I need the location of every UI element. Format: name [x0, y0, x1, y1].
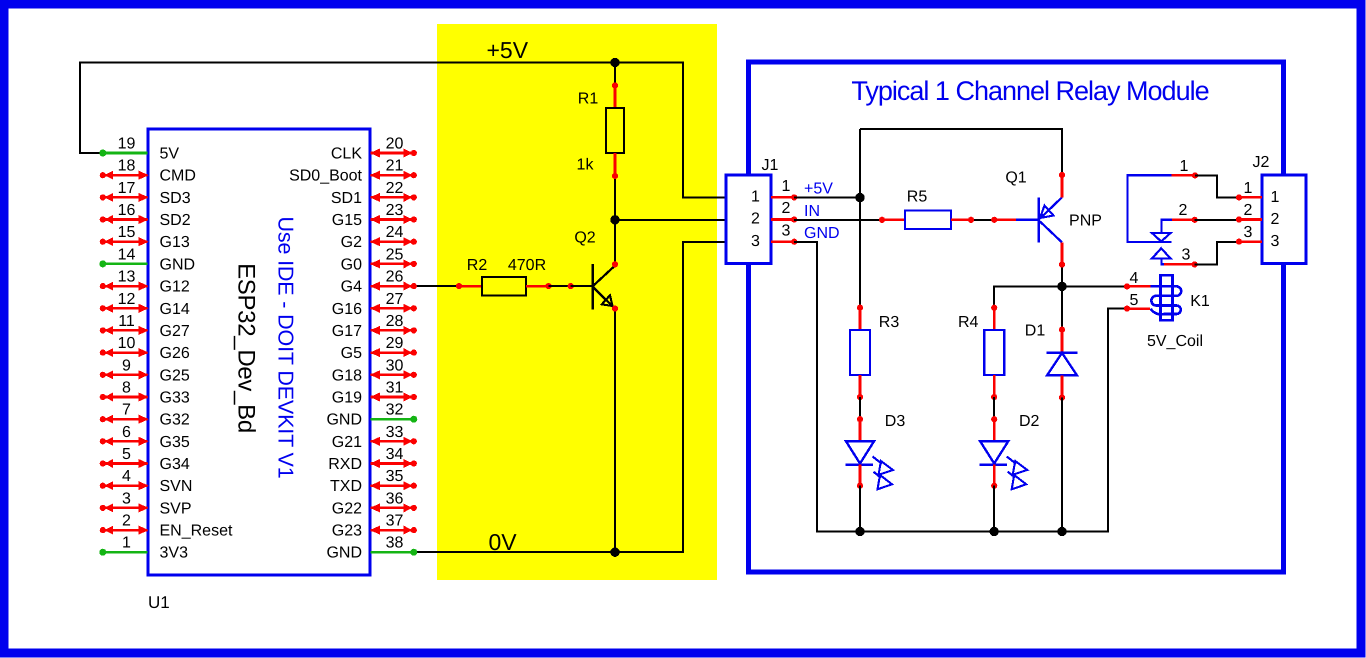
svg-text:G26: G26	[160, 345, 190, 362]
svg-text:G0: G0	[341, 256, 362, 273]
J1 pin 1	[751, 178, 797, 206]
wire: +5V net from U1 pin19 to J1 pin1	[80, 63, 726, 198]
U1 pin 15 (G13)	[100, 224, 190, 251]
svg-text:G12: G12	[160, 279, 190, 296]
svg-text:1k: 1k	[577, 157, 595, 174]
resistor R5	[879, 189, 974, 230]
wire: +5V J1 pin1 to top rail and R3	[794, 197, 860, 199]
svg-text:9: 9	[122, 357, 131, 374]
svg-text:2: 2	[1271, 211, 1280, 228]
svg-text:2: 2	[1244, 202, 1253, 219]
wire: IN J1 pin2 to R5	[794, 219, 882, 221]
svg-text:24: 24	[386, 224, 404, 241]
junction: +5V at R1	[610, 58, 619, 67]
U1 pin 29 (G5)	[341, 335, 417, 362]
J1 pin 2	[751, 200, 797, 228]
wire: top rail to Q1 emitter	[860, 129, 1062, 175]
svg-text:4: 4	[1130, 270, 1139, 287]
svg-text:SD3: SD3	[160, 190, 191, 207]
U1 pin 22 (SD1)	[331, 180, 417, 207]
svg-text:28: 28	[386, 313, 404, 330]
J1 pin 3	[751, 222, 797, 250]
U1 pin 7 (G32)	[100, 402, 190, 429]
U1 pin 35 (TXD)	[330, 468, 417, 495]
U1 pin 17 (SD3)	[100, 180, 191, 207]
svg-text:G15: G15	[332, 212, 362, 229]
svg-text:2: 2	[1179, 202, 1188, 219]
svg-text:SVN: SVN	[160, 478, 193, 495]
svg-text:27: 27	[386, 291, 404, 308]
svg-text:D3: D3	[885, 413, 906, 430]
svg-text:1: 1	[122, 535, 131, 552]
svg-text:G21: G21	[332, 434, 362, 451]
svg-text:Q2: Q2	[574, 230, 595, 247]
wire: contact 1 to J2 pin1	[1195, 175, 1239, 197]
junction: 0V at Q2 emitter	[610, 548, 619, 557]
op U1 ESP32 dev board body	[148, 129, 370, 575]
wire: R1 bottom to Q2 collector / J1 pin2	[614, 176, 616, 264]
U1 pin 31 (G19)	[332, 380, 417, 407]
U1 pin 26 (G4)	[341, 269, 417, 296]
relay contact K1 (SPDT)	[1128, 158, 1199, 268]
wire: R1 top to +5V rail	[614, 63, 616, 86]
junction: bottom rail at R4/D2	[990, 527, 999, 536]
LED D3	[846, 413, 906, 532]
U1 pin 32 (GND)	[326, 402, 417, 429]
svg-text:5: 5	[1130, 292, 1139, 309]
svg-text:GND: GND	[326, 412, 362, 429]
svg-text:Typical 1 Channel Relay Module: Typical 1 Channel Relay Module	[851, 76, 1208, 106]
svg-text:36: 36	[386, 490, 404, 507]
svg-text:32: 32	[386, 402, 404, 419]
svg-text:22: 22	[386, 180, 404, 197]
svg-text:2: 2	[782, 200, 791, 217]
relay coil K1	[1124, 270, 1210, 350]
svg-text:3: 3	[122, 490, 131, 507]
U1 pin 19 (5V)	[99, 136, 179, 163]
svg-text:G16: G16	[332, 301, 362, 318]
svg-text:RXD: RXD	[328, 456, 362, 473]
U1 pin 23 (G15)	[332, 202, 417, 229]
LED D2	[980, 413, 1040, 532]
svg-text:G33: G33	[160, 390, 190, 407]
wire: IN node to J1 pin2	[615, 219, 726, 221]
svg-text:R2: R2	[467, 257, 488, 274]
svg-text:0V: 0V	[489, 529, 518, 555]
svg-text:18: 18	[118, 158, 136, 175]
U1 pin 18 (CMD)	[100, 158, 196, 185]
svg-text:GND: GND	[804, 225, 840, 242]
svg-text:R1: R1	[578, 91, 599, 108]
svg-text:TXD: TXD	[330, 478, 362, 495]
junction: +5V node at J1	[855, 193, 864, 202]
svg-text:R3: R3	[879, 314, 900, 331]
svg-text:U1: U1	[148, 593, 170, 612]
svg-text:G19: G19	[332, 390, 362, 407]
U1 pin 2 (EN_Reset)	[100, 513, 233, 540]
svg-text:31: 31	[386, 380, 404, 397]
junction: bottom rail at R3/D3	[855, 527, 864, 536]
resistor R1	[577, 82, 624, 179]
svg-text:20: 20	[386, 136, 404, 153]
svg-text:G17: G17	[332, 323, 362, 340]
wire: contact 2 to J2 pin2	[1195, 219, 1239, 221]
U1 pin 25 (G0)	[341, 246, 417, 273]
svg-text:G23: G23	[332, 523, 362, 540]
resistor R2 470R	[456, 257, 574, 296]
svg-text:R4: R4	[958, 314, 979, 331]
svg-text:R5: R5	[907, 189, 928, 206]
svg-text:G4: G4	[341, 279, 362, 296]
svg-text:10: 10	[118, 335, 136, 352]
svg-text:K1: K1	[1190, 293, 1210, 310]
svg-text:1: 1	[1244, 180, 1253, 197]
svg-text:23: 23	[386, 202, 404, 219]
U1 pin 6 (G35)	[100, 424, 190, 451]
svg-text:5: 5	[122, 446, 131, 463]
svg-text:Q1: Q1	[1005, 170, 1026, 187]
U1 pin 11 (G27)	[100, 313, 190, 340]
svg-text:14: 14	[118, 246, 136, 263]
diode D1	[1025, 323, 1078, 532]
U1 pin 9 (G25)	[100, 357, 190, 384]
svg-text:3V3: 3V3	[160, 545, 189, 562]
svg-text:6: 6	[122, 424, 131, 441]
svg-text:G18: G18	[332, 367, 362, 384]
svg-text:2: 2	[122, 513, 131, 530]
U1 pin 27 (G16)	[332, 291, 417, 318]
svg-text:GND: GND	[160, 256, 196, 273]
svg-text:G32: G32	[160, 412, 190, 429]
svg-text:33: 33	[386, 424, 404, 441]
svg-text:PNP: PNP	[1069, 213, 1102, 230]
svg-text:GND: GND	[326, 545, 362, 562]
junction: IN node	[610, 215, 619, 224]
J2 pin 3	[1236, 224, 1280, 250]
svg-text:SD1: SD1	[331, 190, 362, 207]
svg-text:12: 12	[118, 291, 136, 308]
U1 pin 20 (CLK)	[331, 136, 417, 163]
svg-text:29: 29	[386, 335, 404, 352]
svg-text:+5V: +5V	[804, 181, 833, 198]
wire: G4 (U1 pin26) to R2	[414, 285, 459, 287]
svg-text:35: 35	[386, 468, 404, 485]
svg-text:3: 3	[751, 233, 760, 250]
svg-text:26: 26	[386, 269, 404, 286]
resistor R3	[850, 305, 899, 420]
svg-text:IN: IN	[804, 203, 820, 220]
connector J1	[726, 157, 779, 264]
U1 pin 24 (G2)	[341, 224, 417, 251]
svg-text:11: 11	[118, 313, 135, 330]
svg-text:25: 25	[386, 246, 404, 263]
svg-text:G13: G13	[160, 234, 190, 251]
wire: contact 3 to J2 pin3	[1195, 242, 1239, 265]
U1 pin 37 (G23)	[332, 513, 417, 540]
wire: Q1 collector node	[994, 286, 1127, 307]
svg-text:G14: G14	[160, 301, 190, 318]
U1 pin 38 (GND)	[326, 535, 417, 562]
svg-text:G22: G22	[332, 500, 362, 517]
svg-text:8: 8	[122, 380, 131, 397]
U1 pin 1 (3V3)	[99, 535, 188, 562]
svg-text:34: 34	[386, 446, 404, 463]
svg-text:ESP32_Dev_Bd: ESP32_Dev_Bd	[233, 263, 260, 433]
U1 pin 14 (GND)	[99, 246, 195, 273]
U1 pin 36 (G22)	[332, 490, 417, 517]
U1 pin 34 (RXD)	[328, 446, 417, 473]
svg-text:SVP: SVP	[160, 500, 192, 517]
svg-text:G5: G5	[341, 345, 362, 362]
transistor Q1 (PNP)	[991, 170, 1102, 268]
svg-text:1: 1	[751, 189, 760, 206]
svg-text:3: 3	[1271, 233, 1280, 250]
wire: GND J1 pin3 to bottom rail to K1 pin5	[794, 242, 1127, 532]
U1 pin 3 (SVP)	[100, 490, 192, 517]
svg-text:15: 15	[118, 224, 136, 241]
svg-text:SD0_Boot: SD0_Boot	[289, 168, 362, 185]
yellow highlight region	[437, 24, 717, 580]
U1 pin 12 (G14)	[100, 291, 190, 318]
U1 pin 28 (G17)	[332, 313, 417, 340]
svg-text:5V: 5V	[160, 146, 180, 163]
J2 pin 2	[1236, 202, 1280, 228]
svg-text:1: 1	[782, 178, 791, 195]
svg-text:CLK: CLK	[331, 146, 362, 163]
junction: bottom rail at D1	[1057, 527, 1066, 536]
svg-text:D2: D2	[1019, 413, 1040, 430]
svg-text:G27: G27	[160, 323, 190, 340]
svg-text:5V_Coil: 5V_Coil	[1147, 333, 1203, 350]
svg-text:3: 3	[1182, 247, 1191, 264]
svg-text:38: 38	[386, 535, 404, 552]
J2 pin 1	[1236, 180, 1280, 206]
svg-text:G34: G34	[160, 456, 190, 473]
svg-text:3: 3	[1244, 224, 1253, 241]
svg-text:J2: J2	[1253, 154, 1270, 171]
svg-text:21: 21	[386, 158, 404, 175]
svg-text:30: 30	[386, 357, 404, 374]
svg-text:3: 3	[782, 222, 791, 239]
svg-text:16: 16	[118, 202, 136, 219]
U1 pin 21 (SD0_Boot)	[289, 158, 417, 185]
junction: collector node	[1057, 282, 1066, 291]
svg-text:7: 7	[122, 402, 131, 419]
U1 pin 10 (G26)	[100, 335, 190, 362]
svg-text:Use IDE - DOIT DEVKIT V1: Use IDE - DOIT DEVKIT V1	[274, 216, 298, 478]
U1 pin 33 (G21)	[332, 424, 417, 451]
svg-text:CMD: CMD	[160, 168, 196, 185]
wire: 0V rail from U1 pin38 to J1 pin3	[414, 242, 726, 552]
svg-text:13: 13	[118, 269, 136, 286]
U1 pin 16 (SD2)	[100, 202, 191, 229]
transistor Q2 (NPN)	[571, 230, 618, 312]
svg-text:1: 1	[1180, 158, 1189, 175]
svg-text:2: 2	[751, 211, 760, 228]
U1 pin 13 (G12)	[100, 269, 190, 296]
svg-text:17: 17	[118, 180, 136, 197]
wire: Q2 emitter to 0V rail	[614, 309, 616, 553]
U1 pin 4 (SVN)	[100, 468, 193, 495]
svg-text:470R: 470R	[508, 257, 546, 274]
svg-text:19: 19	[118, 136, 136, 153]
svg-text:4: 4	[122, 468, 131, 485]
connector J2	[1253, 154, 1306, 264]
svg-text:D1: D1	[1025, 323, 1046, 340]
wire: R5 to Q1 base	[971, 219, 994, 221]
svg-text:G35: G35	[160, 434, 190, 451]
U1 pin 30 (G18)	[332, 357, 417, 384]
svg-text:SD2: SD2	[160, 212, 191, 229]
U1 pin 5 (G34)	[100, 446, 190, 473]
svg-text:1: 1	[1271, 189, 1280, 206]
U1 pin 8 (G33)	[100, 380, 190, 407]
svg-text:G2: G2	[341, 234, 362, 251]
svg-text:37: 37	[386, 513, 404, 530]
resistor R4	[958, 305, 1004, 420]
relay module boundary box	[749, 62, 1284, 572]
svg-text:+5V: +5V	[487, 37, 529, 63]
svg-text:G25: G25	[160, 367, 190, 384]
svg-text:EN_Reset: EN_Reset	[160, 523, 233, 540]
svg-text:J1: J1	[762, 157, 779, 174]
